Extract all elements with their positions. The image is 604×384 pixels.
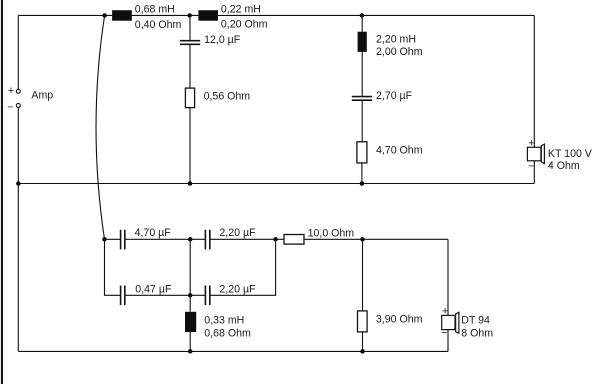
wire bbox=[210, 238, 284, 240]
node bbox=[360, 237, 365, 242]
wire bbox=[210, 239, 276, 295]
svg-text:2,20 µF: 2,20 µF bbox=[219, 227, 256, 239]
svg-text:−: − bbox=[528, 160, 534, 172]
capacitor 0,47 uF bbox=[121, 286, 125, 306]
svg-text:0,33 mH: 0,33 mH bbox=[204, 314, 244, 326]
svg-text:KT 100 V: KT 100 V bbox=[548, 148, 593, 160]
svg-text:2,20 mH: 2,20 mH bbox=[376, 33, 416, 45]
wire bbox=[189, 332, 191, 351]
node bbox=[187, 13, 192, 18]
svg-text:2,00 Ohm: 2,00 Ohm bbox=[376, 46, 423, 58]
wire bbox=[189, 15, 191, 40]
svg-text:0,47 µF: 0,47 µF bbox=[135, 284, 172, 296]
wire bbox=[447, 330, 449, 352]
inductor 2,20 mH bbox=[358, 32, 367, 52]
node bbox=[360, 349, 365, 354]
svg-text:0,22 mH: 0,22 mH bbox=[221, 3, 261, 15]
node bbox=[188, 237, 193, 242]
wire bbox=[105, 239, 121, 295]
node bbox=[273, 237, 278, 242]
capacitor 2,70 uF bbox=[352, 97, 372, 101]
wire bbox=[361, 163, 363, 184]
node bbox=[102, 237, 107, 242]
wire (middle rail) bbox=[18, 183, 534, 185]
wire bbox=[533, 15, 535, 147]
wire bbox=[218, 14, 534, 16]
svg-text:0,20 Ohm: 0,20 Ohm bbox=[221, 19, 268, 31]
svg-text:3,90 Ohm: 3,90 Ohm bbox=[376, 314, 423, 326]
wire bbox=[304, 238, 448, 240]
node bbox=[188, 349, 193, 354]
wire (bottom rail) bbox=[18, 350, 448, 352]
wire (curved feed to tweeter filter) bbox=[96, 15, 105, 239]
svg-text:+: + bbox=[442, 306, 448, 318]
svg-text:4,70 µF: 4,70 µF bbox=[135, 227, 172, 239]
node bbox=[16, 181, 21, 186]
svg-text:2,20 µF: 2,20 µF bbox=[219, 284, 256, 296]
svg-text:−: − bbox=[441, 327, 447, 339]
svg-text:0,68 mH: 0,68 mH bbox=[135, 3, 175, 15]
svg-text:0,40 Ohm: 0,40 Ohm bbox=[135, 19, 182, 31]
resistor 3,90 Ohm bbox=[358, 311, 368, 332]
speaker DT 94 bbox=[442, 312, 459, 333]
wire bbox=[361, 101, 363, 142]
resistor 10,0 Ohm bbox=[284, 235, 304, 245]
inductor 0,68 mH bbox=[112, 10, 132, 21]
wire bbox=[189, 239, 191, 311]
svg-text:+: + bbox=[8, 85, 14, 97]
node bbox=[360, 13, 365, 18]
wire bbox=[105, 238, 121, 240]
wire bbox=[361, 52, 363, 96]
node bbox=[360, 181, 365, 186]
svg-text:12,0 µF: 12,0 µF bbox=[204, 34, 241, 46]
svg-text:Amp: Amp bbox=[31, 89, 53, 101]
capacitor 4,70 uF bbox=[121, 230, 125, 250]
wire bbox=[362, 239, 364, 311]
wire bbox=[125, 294, 206, 296]
wire bbox=[18, 14, 112, 16]
svg-text:0,68 Ohm: 0,68 Ohm bbox=[204, 327, 251, 339]
wire bbox=[125, 238, 206, 240]
inductor 0,22 mH bbox=[198, 10, 218, 21]
svg-text:4,70 Ohm: 4,70 Ohm bbox=[376, 144, 423, 156]
svg-text:+: + bbox=[528, 138, 534, 150]
resistor 4,70 Ohm bbox=[357, 142, 367, 163]
wire bbox=[447, 239, 449, 315]
amp - terminal bbox=[16, 103, 20, 107]
wire bbox=[362, 332, 364, 352]
svg-text:DT 94: DT 94 bbox=[461, 314, 490, 326]
wire bbox=[361, 15, 363, 31]
svg-text:4 Ohm: 4 Ohm bbox=[548, 160, 580, 172]
wire bbox=[132, 14, 199, 16]
capacitor 2,20 uF (upper) bbox=[205, 230, 209, 250]
wire bbox=[189, 108, 191, 184]
node bbox=[188, 181, 193, 186]
inductor 0,33 mH bbox=[185, 312, 196, 332]
node bbox=[102, 13, 107, 18]
capacitor 12,0 uF bbox=[180, 41, 200, 45]
wire bbox=[189, 45, 191, 88]
capacitor 2,20 uF (lower) bbox=[205, 286, 209, 306]
amp + terminal bbox=[16, 89, 20, 93]
wire bbox=[533, 161, 535, 184]
resistor 0,56 Ohm bbox=[185, 88, 194, 108]
wire bbox=[17, 108, 19, 352]
svg-text:−: − bbox=[7, 101, 13, 113]
svg-text:0,56 Ohm: 0,56 Ohm bbox=[204, 90, 251, 102]
svg-text:10,0 Ohm: 10,0 Ohm bbox=[308, 228, 355, 240]
node bbox=[188, 293, 193, 298]
speaker KT 100 V bbox=[527, 144, 544, 163]
svg-text:8 Ohm: 8 Ohm bbox=[461, 327, 493, 339]
wire bbox=[17, 15, 19, 89]
svg-text:2,70 µF: 2,70 µF bbox=[376, 90, 413, 102]
